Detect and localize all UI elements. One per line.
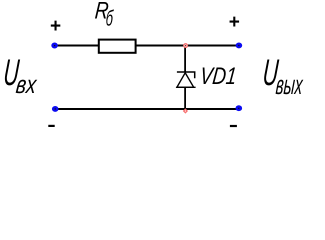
resistor R_b body	[99, 40, 136, 53]
node terminal input - (blue)	[52, 106, 59, 112]
label subscript vx of input voltage	[15, 71, 39, 99]
zener diode VD1 triangle	[177, 73, 194, 88]
svg-text:б: б	[105, 6, 114, 30]
wire vertical from top junction to diode cathode	[184, 46, 186, 73]
svg-text:вых: вых	[275, 69, 305, 100]
zener diode VD1 cathode bar with hook	[177, 72, 195, 78]
label - output terminal	[230, 125, 237, 127]
label U of U_vx input voltage	[2, 53, 21, 93]
svg-text:вх: вх	[15, 71, 39, 99]
node terminal input + (blue)	[51, 43, 58, 49]
label VD1 of zener diode	[199, 62, 238, 90]
junction marker bottom (red diamond)	[183, 108, 188, 113]
junction marker top (red star)	[183, 43, 188, 48]
svg-text:+: +	[229, 12, 240, 33]
node terminal output + (blue)	[236, 42, 243, 48]
svg-text:VD1: VD1	[199, 62, 238, 90]
label R of resistor	[94, 0, 110, 24]
label U of U_vyx output voltage	[261, 53, 280, 93]
zener diode VD1 anode base line	[176, 86, 195, 88]
label subscript b of resistor	[105, 6, 114, 30]
svg-text:+: +	[50, 16, 61, 37]
wire bottom from input - node to output - node	[55, 108, 237, 110]
wire vertical from diode anode to bottom junction	[184, 87, 186, 109]
label subscript vyx of output voltage	[275, 69, 305, 100]
label - input terminal	[48, 125, 54, 127]
wire top from input + node to resistor	[55, 45, 99, 47]
wire top from resistor to output + node	[136, 45, 237, 47]
node terminal output - (blue)	[236, 105, 243, 111]
